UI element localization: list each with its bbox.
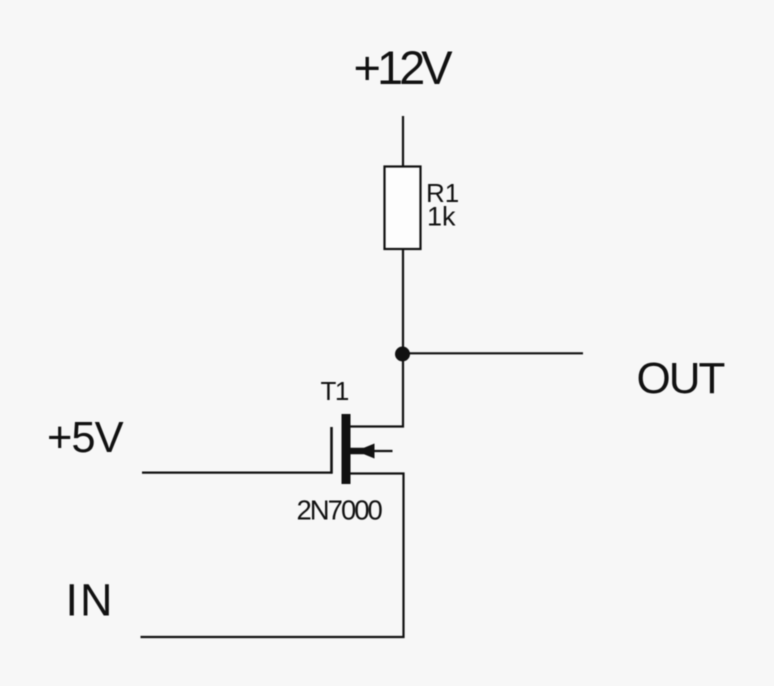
svg-text:1k: 1k xyxy=(427,202,456,232)
wire node to drain of T1 xyxy=(351,354,404,427)
svg-text:+5V: +5V xyxy=(47,414,124,462)
svg-text:IN: IN xyxy=(66,575,115,626)
wire +5V to gate xyxy=(142,472,333,474)
transistor T1 channel bar xyxy=(342,414,351,484)
wire resistor to node xyxy=(402,249,404,354)
svg-text:OUT: OUT xyxy=(637,354,725,403)
transistor T1 gate line xyxy=(330,427,333,474)
wire node to OUT xyxy=(403,352,583,354)
node junction dot xyxy=(395,347,410,362)
wire source of T1 down to IN wire xyxy=(141,474,404,638)
svg-text:2N7000: 2N7000 xyxy=(297,495,383,526)
wire +12V lead to resistor xyxy=(402,116,404,167)
body arrow of T1 xyxy=(351,444,375,459)
resistor R1 xyxy=(385,167,421,250)
body line of T1 xyxy=(351,450,393,452)
svg-text:T1: T1 xyxy=(321,376,349,406)
svg-text:+12V: +12V xyxy=(354,41,454,94)
